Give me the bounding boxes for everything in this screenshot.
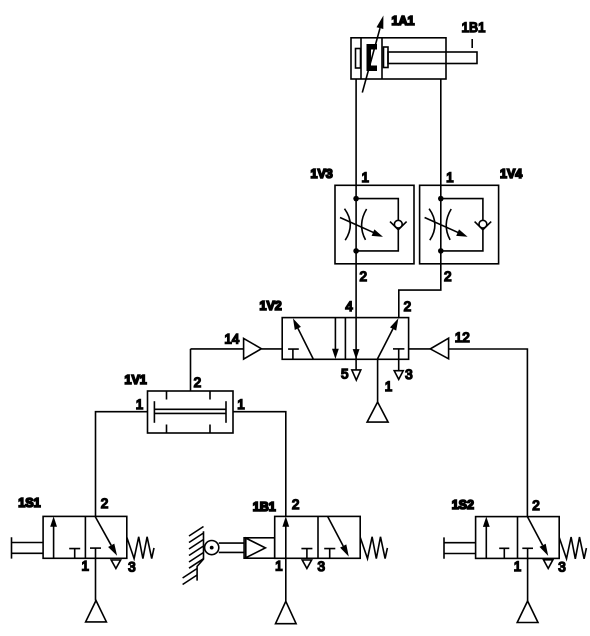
valve 1B1 left cell up arrow shaft <box>285 525 287 558</box>
valve 1S1 right cell blocked port T (port 1) <box>90 547 101 549</box>
valve 1V2 right cell diagonal arrowhead <box>390 318 398 330</box>
valve 1B1 right cell diagonal arrow line <box>328 516 344 546</box>
roller 1B1 plunger triangle <box>246 538 266 558</box>
port 1 supply stem <box>377 359 379 402</box>
wire cylinder right port to 1V4 <box>440 79 442 264</box>
cylinder 1A1 magnet bracket <box>367 44 378 71</box>
wire 1V1 top port to pilot 14 <box>190 349 192 391</box>
valve 1B1 body <box>275 516 361 558</box>
valve 1B1 right cell diagonal arrowhead <box>340 544 349 556</box>
valve 1V2 left cell diagonal arrow line <box>298 328 313 359</box>
svg-text:1S2: 1S2 <box>452 498 474 512</box>
valve 1S1 right cell diagonal arrowhead <box>108 544 117 556</box>
valve 1S1 left cell up arrow shaft <box>53 525 55 558</box>
valve 1B1 left cell up arrowhead <box>282 516 289 526</box>
valve 1V2 left cell down arrow shaft <box>334 318 336 350</box>
cylinder 1A1 piston line <box>381 38 383 79</box>
supply triangle 1S2 <box>517 601 538 623</box>
throttle 1V3 adjust arrow line <box>340 218 375 234</box>
svg-text:2: 2 <box>194 375 202 390</box>
wire 1V4 bypass lower <box>441 230 483 251</box>
valve 1S1 right cell diagonal arrow line <box>95 516 111 545</box>
throttle 1V3 left arc <box>345 209 351 241</box>
cylinder 1A1 left cushion rect <box>356 49 361 69</box>
spring 1B1 <box>360 537 387 559</box>
wire 1V1 right port to 1B1 <box>233 412 286 517</box>
svg-text:1: 1 <box>446 170 454 185</box>
valve 1V2 left cell diagonal arrowhead <box>293 318 301 330</box>
port 1 supply triangle <box>367 402 388 422</box>
valve 1S1 left cell up arrowhead <box>50 516 57 526</box>
svg-text:1: 1 <box>385 379 393 394</box>
valve 1S2 divider <box>517 517 519 559</box>
valve 1B1 right cell blocked port T <box>324 549 335 559</box>
wire 1B1 port 1 to supply <box>285 558 287 601</box>
wire 1V3 bypass lower <box>356 230 398 251</box>
valve 1V1 box <box>148 391 234 433</box>
valve 1B1 divider <box>317 516 319 558</box>
valve 1V4 box <box>420 185 499 263</box>
node 1V4 lower junction <box>438 248 444 254</box>
wall (cam) outline 1B1 <box>197 531 203 580</box>
svg-text:2: 2 <box>101 496 109 511</box>
wire 1S1 port 1 to supply <box>95 548 97 600</box>
supply triangle 1B1 <box>276 601 297 623</box>
wire 1S2 port 1 to supply <box>527 548 529 601</box>
wire 1V3 bypass upper <box>356 199 398 221</box>
cylinder 1A1 adjust arrow line <box>362 28 380 92</box>
cylinder 1A1 piston rod <box>388 52 477 64</box>
spring 1S1 <box>127 537 154 559</box>
valve 1V2 right cell down arrowhead (port4 to port5) <box>353 349 360 359</box>
valve 1V1 bottom seat ticks <box>167 425 211 434</box>
sensor mark 1B1 tick <box>471 39 473 48</box>
valve 1V2 right cell diagonal arrow line <box>377 329 393 359</box>
svg-text:1V2: 1V2 <box>260 299 282 313</box>
svg-text:2: 2 <box>404 299 412 314</box>
valve 1S2 left cell blocked port T <box>499 548 509 558</box>
check valve 1V4 seat <box>475 222 492 230</box>
cylinder 1A1 left cap line <box>360 38 362 79</box>
port 3 exhaust triangle <box>394 371 403 380</box>
svg-text:1V4: 1V4 <box>500 167 522 181</box>
pilot 12 triangle <box>430 338 448 359</box>
valve 1S1 body <box>43 516 127 558</box>
svg-text:5: 5 <box>341 367 349 382</box>
valve 1V3 box <box>335 185 414 263</box>
valve 1V1 shuttle double line <box>154 409 226 413</box>
valve 1V2 divider <box>344 318 346 360</box>
svg-text:3: 3 <box>558 560 566 575</box>
pilot line 14 wire <box>191 348 283 350</box>
port 3 exhaust triangle 1B1 <box>302 560 311 569</box>
svg-text:1: 1 <box>82 559 90 574</box>
roller 1B1 plunger box <box>244 538 275 558</box>
throttle 1V3 right arc <box>362 209 367 240</box>
throttle 1V4 right arc <box>446 209 451 240</box>
throttle 1V4 adjust arrowhead <box>456 229 467 236</box>
svg-text:1V1: 1V1 <box>125 373 147 387</box>
throttle 1V3 adjust arrowhead <box>372 229 383 236</box>
svg-text:1: 1 <box>275 559 283 574</box>
valve 1B1 left cell blocked port T (port 3) <box>301 549 312 559</box>
svg-text:3: 3 <box>405 367 413 382</box>
port 3 exhaust triangle 1S2 <box>544 560 553 569</box>
svg-text:1B1: 1B1 <box>462 20 486 35</box>
port 5 exhaust stem <box>355 318 357 370</box>
wire 1V1 left port to 1S1 <box>96 412 148 517</box>
svg-text:1: 1 <box>136 397 144 412</box>
svg-text:2: 2 <box>444 269 452 284</box>
svg-text:3: 3 <box>128 560 136 575</box>
supply triangle 1S1 <box>86 601 107 622</box>
wire 1V4 bypass upper <box>441 199 483 221</box>
valve 1S1 left cell blocked port T <box>69 549 80 559</box>
port 3 exhaust stem <box>398 349 400 371</box>
valve 1S2 left cell up arrow shaft <box>485 525 487 558</box>
svg-text:4: 4 <box>345 299 353 314</box>
valve 1V2 body <box>282 318 408 360</box>
port 5 exhaust triangle <box>352 370 361 380</box>
svg-text:1: 1 <box>237 397 245 412</box>
roller 1B1 lever lines <box>219 543 244 552</box>
svg-text:2: 2 <box>532 498 540 513</box>
cylinder 1A1 rod bearing <box>384 47 389 68</box>
valve 1S2 right cell diagonal arrowhead <box>540 544 549 556</box>
throttle 1V4 left arc <box>429 209 435 241</box>
node 1V3 lower junction <box>353 248 359 254</box>
svg-text:3: 3 <box>318 559 326 574</box>
cylinder 1A1 adjust arrowhead <box>377 16 384 30</box>
check valve 1V3 seat <box>390 222 407 230</box>
node 1V4 upper junction <box>438 196 444 202</box>
plunger actuator 1S1 <box>12 537 44 558</box>
port 3 exhaust triangle 1S1 <box>111 560 120 569</box>
svg-text:1: 1 <box>514 559 522 574</box>
valve 1S2 right cell blocked port T (port 1) <box>522 547 533 549</box>
svg-text:2: 2 <box>292 497 300 512</box>
valve 1V1 top seat ticks <box>167 391 211 400</box>
svg-text:2: 2 <box>360 269 368 284</box>
valve 1V1 left end bar <box>153 401 155 423</box>
valve 1S2 right cell diagonal arrow line <box>527 517 542 546</box>
valve 1S2 left cell up arrowhead <box>483 517 490 527</box>
svg-text:1: 1 <box>362 170 370 185</box>
pilot 14 triangle <box>244 338 262 359</box>
roller 1B1 wheel <box>205 541 219 555</box>
wire 1V4 port 2 to 1V2 port 2 <box>399 264 441 318</box>
svg-text:1V3: 1V3 <box>311 167 333 181</box>
svg-text:1A1: 1A1 <box>392 14 415 28</box>
roller 1B1 axle dot <box>210 546 214 550</box>
node 1V3 upper junction <box>353 196 359 202</box>
valve 1S2 body <box>476 517 560 559</box>
valve 1V2 left cell blocked port T <box>288 349 299 359</box>
check valve 1V3 ball <box>394 220 402 228</box>
svg-text:12: 12 <box>455 330 470 345</box>
valve 1S1 divider <box>84 516 86 558</box>
valve 1V1 right end bar <box>225 401 227 423</box>
throttle 1V4 adjust arrow line <box>425 218 460 234</box>
plunger actuator 1S2 <box>444 537 476 558</box>
cylinder 1A1 body <box>351 38 446 79</box>
valve 1V2 left cell down arrowhead <box>332 349 339 359</box>
svg-text:1S1: 1S1 <box>18 496 40 510</box>
wire cylinder left port to 1V2 port 4 (through 1V3) <box>355 79 357 318</box>
pilot line 12 wire <box>409 349 528 517</box>
check valve 1V4 ball <box>479 220 487 228</box>
spring 1S2 <box>559 537 586 559</box>
valve 1V2 right cell blocked port T <box>393 348 404 350</box>
svg-text:1B1: 1B1 <box>253 500 276 514</box>
wall hatching 1B1 <box>183 527 204 585</box>
svg-text:14: 14 <box>224 332 240 347</box>
